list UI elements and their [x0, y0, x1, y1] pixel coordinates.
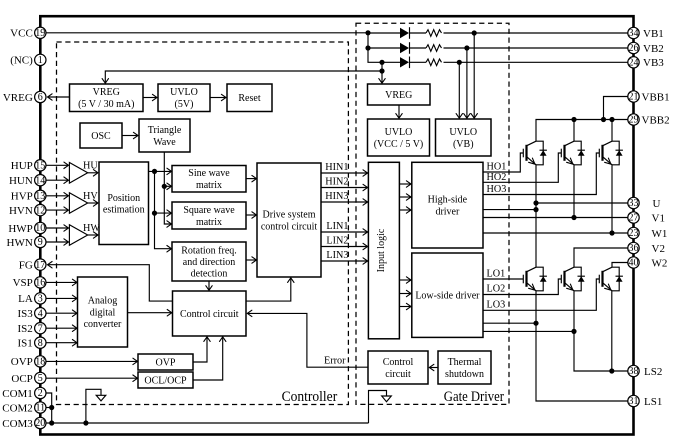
svg-text:IS1: IS1: [18, 338, 33, 350]
svg-text:OVP: OVP: [11, 356, 33, 368]
pin HWN (9): [7, 236, 46, 249]
pin VBB1 (21): [628, 91, 670, 104]
pin VB3 (24): [628, 57, 664, 70]
svg-text:(NC): (NC): [10, 55, 33, 67]
svg-text:circuit: circuit: [385, 369, 411, 380]
svg-text:HUN: HUN: [9, 175, 33, 187]
wire OVP box to control circuit: [193, 337, 207, 362]
svg-text:17: 17: [35, 260, 45, 271]
svg-text:VB1: VB1: [643, 28, 664, 40]
wire OCL/OCP box to control circuit: [193, 337, 223, 380]
pin COM3 (20): [2, 417, 46, 430]
wire emitter Q4 down to LS1: [536, 291, 628, 401]
svg-text:33: 33: [629, 198, 639, 209]
wire emitter Q6 down to LS2 line: [611, 291, 613, 371]
svg-text:27: 27: [629, 213, 639, 224]
wire LO3: [483, 279, 599, 310]
svg-text:26: 26: [629, 43, 639, 54]
svg-text:12: 12: [35, 205, 45, 216]
wire COM1 down to COM rail: [46, 393, 52, 423]
svg-text:V2: V2: [652, 243, 665, 255]
svg-text:HVN: HVN: [9, 205, 33, 217]
pin LA (3): [18, 293, 46, 306]
svg-text:HO3: HO3: [487, 184, 507, 195]
pin COM2 (11): [2, 402, 46, 415]
block UVLO (VCC/5V): [368, 119, 430, 156]
pin IS2 (7): [18, 323, 46, 336]
wire VBB2 rail: [536, 120, 628, 142]
pin (NC) (1): [10, 54, 46, 66]
svg-text:31: 31: [629, 396, 639, 407]
svg-text:14: 14: [35, 175, 45, 186]
svg-text:16: 16: [35, 278, 45, 289]
svg-text:20: 20: [35, 418, 45, 429]
svg-text:24: 24: [629, 58, 639, 69]
svg-text:HIN3: HIN3: [325, 191, 348, 202]
block VREG gate driver: [368, 84, 431, 105]
svg-text:HW: HW: [83, 223, 100, 234]
wire VBB1 drop: [604, 97, 628, 120]
svg-text:10: 10: [35, 223, 45, 234]
svg-text:W1: W1: [652, 228, 668, 240]
svg-text:(5 V / 30 mA): (5 V / 30 mA): [78, 99, 134, 110]
pin VBB2 (29): [628, 114, 670, 127]
svg-text:HO2: HO2: [487, 172, 507, 183]
svg-text:VB3: VB3: [643, 57, 664, 69]
wire emitter Q2 down: [573, 165, 575, 218]
svg-text:VREG: VREG: [3, 92, 33, 104]
svg-text:matrix: matrix: [196, 180, 222, 191]
resistor R3: [410, 61, 427, 63]
wire row3 to VREG gate: [381, 62, 383, 83]
block Position estimation: [99, 162, 149, 245]
svg-text:LO2: LO2: [487, 284, 506, 295]
Controller section dashed box: [57, 42, 349, 405]
diode D3 bootstrap: [400, 57, 409, 67]
wire OSC to Triangle Wave arrow: [122, 135, 138, 137]
node VB drops to UVLO(VB): [472, 30, 477, 35]
svg-text:FG: FG: [19, 259, 33, 271]
wire collector Q2 to rail: [573, 120, 575, 142]
svg-text:UVLO: UVLO: [170, 87, 198, 98]
wire LO1: [483, 278, 523, 280]
block VREG (5V/30mA) U-ctrl: [70, 84, 144, 112]
wire HVP to comparator: [46, 195, 69, 197]
svg-text:11: 11: [35, 403, 45, 414]
svg-text:digital: digital: [90, 307, 116, 318]
svg-text:8: 8: [38, 338, 43, 349]
svg-text:W2: W2: [652, 257, 668, 269]
wire FG output from control circuit: [48, 265, 173, 301]
svg-text:HVP: HVP: [11, 191, 33, 203]
pin W1 (23): [628, 227, 668, 240]
wire W2 line from collector Q6: [612, 263, 628, 268]
block Reset: [227, 84, 272, 112]
svg-text:HU: HU: [83, 161, 98, 172]
svg-text:HUP: HUP: [11, 160, 33, 172]
wire HO3: [483, 153, 599, 195]
svg-text:6: 6: [38, 92, 43, 103]
pin VREG (6): [3, 91, 46, 104]
svg-text:OCP: OCP: [11, 373, 32, 385]
block Drive system control circuit: [257, 163, 321, 277]
wire to pin VB1: [444, 32, 628, 34]
wire input logic to high-side driver: [399, 209, 411, 211]
pin U (33): [628, 197, 661, 210]
wire VSP to ADC: [46, 281, 77, 283]
wire to pin VB3: [444, 61, 628, 63]
wire HO1: [483, 153, 523, 172]
wire sine matrix to drive system: [246, 178, 257, 180]
wire thermal shutdown to control circuit: [429, 367, 438, 369]
svg-text:OCL/OCP: OCL/OCP: [144, 375, 187, 386]
svg-text:Controller: Controller: [282, 389, 338, 405]
block OSC: [80, 123, 122, 148]
svg-text:VBB2: VBB2: [642, 114, 670, 126]
svg-text:VCC: VCC: [10, 28, 33, 40]
wire COM3 ground rail: [46, 422, 369, 424]
wire IS2 to ADC: [46, 327, 77, 329]
svg-text:40: 40: [629, 258, 639, 269]
svg-text:4: 4: [38, 308, 43, 319]
svg-text:VB2: VB2: [643, 43, 664, 55]
wire LIN1 drive system to input logic: [321, 231, 368, 233]
svg-text:High-side: High-side: [428, 195, 468, 206]
op-amp comparator HW: [69, 223, 100, 246]
pin LS1 (31): [628, 395, 663, 408]
wire position est. to sine matrix: [149, 170, 172, 172]
ground symbol controller: [83, 389, 106, 425]
wire HUN to comparator: [46, 179, 69, 181]
svg-text:2: 2: [38, 388, 43, 399]
svg-text:IS3: IS3: [18, 308, 34, 320]
block Sine wave matrix: [172, 166, 246, 193]
pin HWP (10): [8, 222, 46, 235]
wire VB row2: [368, 47, 400, 49]
block Rotation freq. and direction detection: [172, 242, 246, 281]
svg-text:23: 23: [629, 228, 639, 239]
wire triangle wave down to matrices: [164, 152, 171, 224]
block Square wave matrix: [172, 202, 246, 229]
wire IS1 to ADC: [46, 342, 77, 344]
wire VCC feed vertical in gate driver: [368, 33, 400, 63]
transistor Q4 (IGBT with body diode): [523, 267, 547, 291]
wire U sense to high-side driver: [483, 209, 536, 211]
transistor Q6 (IGBT with body diode): [599, 267, 623, 291]
wire HIN1 drive system to input logic: [321, 172, 368, 174]
svg-text:19: 19: [35, 28, 45, 39]
svg-text:Sine wave: Sine wave: [188, 168, 230, 179]
node COM junctions: [49, 405, 54, 410]
wire OCP pin to OCL/OCP box: [46, 377, 138, 379]
pin VB2 (26): [628, 42, 664, 55]
svg-text:Drive system: Drive system: [262, 210, 315, 221]
wire VREG to UVLO(VCC/5V): [398, 105, 400, 118]
wire branch to square matrix: [155, 212, 172, 214]
wire rotation freq to drive system: [246, 259, 257, 261]
pin VB1 (34): [628, 27, 664, 40]
wire U line to pin: [536, 202, 628, 204]
wire UVLO5V to Reset arrow: [210, 97, 226, 99]
svg-text:Control: Control: [383, 357, 414, 368]
svg-text:Gate Driver: Gate Driver: [444, 389, 504, 405]
pin VCC (19): [10, 27, 46, 40]
svg-text:LS2: LS2: [644, 366, 662, 378]
pin V1 (27): [628, 212, 665, 225]
wire HIN2 drive system to input logic: [321, 187, 368, 189]
wire IS3 to ADC: [46, 312, 77, 314]
svg-text:7: 7: [38, 323, 43, 334]
transistor Q2 (IGBT with body diode): [561, 141, 585, 165]
pin IS3 (4): [18, 308, 46, 321]
wire HWP to comparator: [46, 227, 69, 229]
svg-text:COM1: COM1: [2, 388, 33, 400]
wire VB2 drop: [466, 48, 468, 118]
pin HUP (15): [11, 160, 46, 173]
op-amp comparator HU: [69, 161, 98, 184]
svg-text:Input logic: Input logic: [376, 228, 387, 272]
svg-text:COM2: COM2: [2, 402, 33, 414]
block OVP: [138, 354, 193, 370]
block Triangle Wave: [139, 119, 190, 152]
wire VB1 drop: [473, 33, 475, 118]
svg-text:LS1: LS1: [644, 396, 662, 408]
svg-text:Error: Error: [324, 356, 346, 367]
svg-text:detection: detection: [191, 268, 228, 279]
svg-text:LIN3: LIN3: [326, 250, 348, 261]
pin OVP (18): [11, 356, 46, 369]
wire control circuit up to drive system: [246, 278, 291, 301]
wire W1 line: [483, 232, 628, 234]
block UVLO (VB): [436, 119, 492, 156]
wire emitter Q1 down / phase U node: [535, 165, 537, 267]
wire OVP pin to OVP box: [46, 360, 138, 362]
pin HVP (13): [11, 190, 46, 203]
wire LO2: [483, 279, 561, 295]
wire VB3 drop: [458, 62, 460, 118]
svg-text:15: 15: [35, 161, 45, 172]
block High-side driver: [412, 162, 483, 248]
transistor Q3 (IGBT with body diode): [599, 141, 623, 165]
pin OCP (5): [11, 372, 46, 385]
svg-text:9: 9: [38, 237, 43, 248]
svg-text:VSP: VSP: [13, 277, 33, 289]
transistor Q5 (IGBT with body diode): [561, 267, 585, 291]
svg-text:driver: driver: [435, 207, 460, 218]
diode D2 bootstrap: [400, 43, 409, 53]
transistor Q1 (IGBT with body diode): [523, 141, 547, 165]
wire VCC pin19 to diode feed: [46, 32, 368, 34]
ground symbol gate driver: [369, 391, 392, 424]
svg-text:(VB): (VB): [453, 139, 474, 150]
svg-text:OVP: OVP: [155, 357, 175, 368]
svg-text:21: 21: [629, 92, 639, 103]
svg-text:control circuit: control circuit: [261, 221, 318, 232]
wire Error from gate driver to control circuit: [247, 313, 368, 367]
wire emitter Q3 down: [611, 165, 613, 233]
wire HWN to comparator: [46, 241, 69, 243]
wire COM2 to COM rail: [46, 407, 52, 409]
pin W2 (40): [628, 257, 668, 270]
block OCL/OCP: [138, 372, 193, 388]
block Control circuit ctrl: [173, 291, 247, 336]
block Input logic: [368, 162, 399, 338]
svg-text:LIN1: LIN1: [326, 221, 348, 232]
svg-text:LA: LA: [18, 293, 33, 305]
svg-text:Rotation freq.: Rotation freq.: [181, 245, 237, 256]
wire collector Q3 to rail: [611, 120, 613, 142]
wire LA to ADC: [46, 297, 77, 299]
svg-text:matrix: matrix: [196, 217, 222, 228]
svg-text:Position: Position: [107, 193, 140, 204]
svg-text:LO1: LO1: [487, 269, 506, 280]
wire to pin VB2: [444, 47, 628, 49]
wire V1 line: [483, 217, 628, 219]
pin V2 (36): [628, 242, 665, 255]
svg-text:COM3: COM3: [2, 418, 33, 430]
svg-text:(VCC / 5 V): (VCC / 5 V): [374, 139, 424, 150]
diode D1 bootstrap: [400, 28, 409, 38]
svg-text:5: 5: [38, 373, 43, 384]
svg-text:V1: V1: [652, 212, 665, 224]
svg-text:estimation: estimation: [103, 205, 145, 216]
svg-text:VREG: VREG: [385, 90, 412, 101]
wire input logic to low-side driver: [399, 306, 411, 308]
wire VREG ctrl to UVLO5V arrow: [143, 97, 157, 99]
svg-text:VREG: VREG: [93, 87, 120, 98]
wire V2 line from collector Q5: [574, 248, 628, 267]
svg-text:34: 34: [629, 28, 639, 39]
svg-text:1: 1: [38, 55, 43, 66]
pin HUN (14): [9, 175, 46, 188]
svg-text:UVLO: UVLO: [449, 127, 477, 138]
svg-text:HIN2: HIN2: [325, 177, 348, 188]
svg-text:Analog: Analog: [88, 296, 117, 307]
block Thermal shutdown: [438, 351, 491, 384]
svg-text:3: 3: [38, 294, 43, 305]
svg-text:HWN: HWN: [7, 237, 33, 249]
pin IS1 (8): [18, 337, 46, 350]
svg-text:Control circuit: Control circuit: [180, 309, 239, 320]
svg-text:shutdown: shutdown: [445, 369, 484, 380]
svg-text:Triangle: Triangle: [148, 125, 182, 136]
wire ADC to control circuit: [128, 312, 172, 314]
wire HIN3 drive system to input logic: [321, 201, 368, 203]
wire HUP to comparator: [46, 164, 69, 166]
svg-text:LIN2: LIN2: [326, 236, 348, 247]
resistor R1: [410, 32, 427, 34]
wire input logic to high-side driver: [399, 183, 411, 185]
svg-text:Reset: Reset: [238, 93, 260, 104]
svg-text:(5V): (5V): [175, 99, 194, 110]
svg-text:18: 18: [35, 357, 45, 368]
wire LIN3 drive system to input logic: [321, 260, 368, 262]
wire LS2 sense to low-side driver: [483, 330, 574, 332]
wire rotation freq down to control circuit: [208, 281, 210, 290]
pin VSP (16): [13, 277, 46, 290]
block Analog digital converter: [78, 277, 128, 347]
wire input logic to low-side driver: [399, 293, 411, 295]
block Control circuit gate driver: [368, 351, 428, 384]
svg-text:VBB1: VBB1: [642, 91, 670, 103]
resistor R2: [410, 47, 427, 49]
svg-text:Thermal: Thermal: [448, 357, 482, 368]
svg-text:HIN1: HIN1: [325, 162, 348, 173]
wire VREG box to pin6 with arrow: [48, 96, 70, 98]
pin COM1 (2): [2, 387, 46, 400]
op-amp comparator HV: [69, 191, 98, 214]
svg-text:38: 38: [629, 366, 639, 377]
svg-text:U: U: [653, 198, 661, 210]
svg-text:IS2: IS2: [18, 323, 33, 335]
wire input logic to high-side driver: [399, 196, 411, 198]
wire VB row1: [368, 32, 400, 34]
svg-text:HWP: HWP: [8, 223, 32, 235]
svg-text:Square wave: Square wave: [183, 205, 235, 216]
block Low-side driver: [412, 253, 483, 337]
block UVLO (5V): [158, 84, 210, 112]
svg-text:UVLO: UVLO: [385, 127, 413, 138]
svg-text:29: 29: [629, 115, 639, 126]
wire HVN to comparator: [46, 209, 69, 211]
wire emitter Q5 down to LS2: [574, 291, 628, 371]
wire LIN2 drive system to input logic: [321, 246, 368, 248]
wire branch vertical to square/rotation: [155, 171, 172, 248]
pin LS2 (38): [628, 365, 663, 378]
svg-text:LO3: LO3: [487, 300, 506, 311]
svg-text:and direction: and direction: [183, 257, 235, 268]
wire HO2: [483, 153, 561, 182]
svg-text:Low-side driver: Low-side driver: [415, 291, 480, 302]
wire loop VREG supply line: [105, 71, 382, 84]
wire LS1 sense to low-side driver: [483, 322, 536, 324]
wire triangle to sine matrix: [164, 185, 171, 187]
svg-text:36: 36: [629, 243, 639, 254]
wire input logic to low-side driver: [399, 279, 411, 281]
pin FG (17): [19, 259, 46, 272]
svg-text:OSC: OSC: [91, 131, 111, 142]
svg-text:converter: converter: [84, 319, 122, 330]
pin HVN (12): [9, 204, 46, 216]
svg-text:Wave: Wave: [153, 137, 176, 148]
svg-text:HO1: HO1: [487, 162, 507, 173]
Gate Driver section dashed box: [356, 23, 509, 404]
svg-text:HV: HV: [83, 191, 98, 202]
svg-text:13: 13: [35, 191, 45, 202]
wire square matrix to drive system: [246, 214, 257, 216]
